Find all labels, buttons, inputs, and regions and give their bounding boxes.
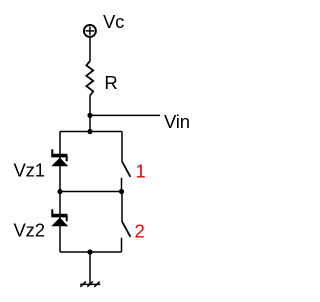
wire bottom rail — [60, 251, 122, 253]
node middle-left junction dot — [57, 189, 62, 194]
svg-text:1: 1 — [136, 161, 146, 182]
wire Vc to resistor — [89, 37, 91, 61]
switch 1 lower contact — [121, 178, 123, 192]
zener diode Vz1 — [51, 149, 67, 166]
resistor R — [86, 61, 93, 96]
wire Vin stub — [90, 114, 160, 116]
svg-text:Vin: Vin — [164, 111, 190, 132]
wire top rail — [60, 131, 122, 133]
node ground junction dot — [87, 249, 92, 254]
zener diode Vz2 — [51, 209, 67, 226]
wire middle rail — [60, 191, 122, 193]
switch 2 lower contact — [121, 238, 123, 252]
wire left branch — [59, 132, 61, 253]
node Vin junction dot — [87, 113, 92, 118]
svg-text:Vz2: Vz2 — [14, 220, 45, 241]
switch 2 blade — [122, 222, 130, 237]
node top rail junction dot — [87, 129, 92, 134]
wire right branch middle — [121, 192, 123, 222]
svg-text:Vz1: Vz1 — [14, 160, 45, 181]
wire ground stem — [89, 252, 91, 284]
wire resistor to top rail — [89, 96, 91, 132]
ground — [80, 281, 100, 286]
node middle-right junction dot — [119, 189, 124, 194]
svg-text:Vc: Vc — [103, 11, 124, 32]
switch 1 blade — [122, 162, 130, 177]
wire right branch upper — [121, 132, 123, 162]
svg-text:2: 2 — [135, 221, 145, 242]
supply terminal Vc — [84, 25, 96, 37]
svg-text:R: R — [104, 72, 117, 93]
